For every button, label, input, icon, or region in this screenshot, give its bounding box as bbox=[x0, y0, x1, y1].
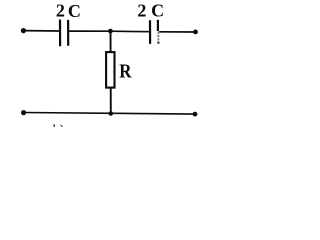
svg-text:R: R bbox=[119, 60, 132, 81]
svg-text:2: 2 bbox=[56, 1, 65, 21]
resistor R body bbox=[106, 52, 114, 88]
wire: node A down to resistor top bbox=[110, 31, 112, 52]
capacitor C1 value label 2C bbox=[56, 1, 81, 21]
svg-text:C: C bbox=[68, 1, 81, 21]
node: top-right terminal bbox=[193, 30, 198, 35]
wire: C2 right plate to top-right terminal bbox=[159, 31, 195, 33]
node A: top junction dot bbox=[108, 29, 113, 34]
node B: bottom junction dot bbox=[109, 111, 114, 116]
wire: resistor bottom down to node B bbox=[110, 88, 112, 114]
node: bottom-left terminal bbox=[21, 110, 26, 115]
wire: top-left terminal to C1 left plate bbox=[23, 30, 59, 32]
capacitor C2 value label 2C bbox=[137, 1, 164, 21]
svg-text:2: 2 bbox=[137, 1, 146, 21]
capacitor C1 (2C) plates bbox=[60, 20, 68, 47]
wire: C1 right plate to node A bbox=[69, 30, 110, 32]
wire: bottom rail bbox=[24, 113, 195, 115]
node: bottom-right terminal bbox=[193, 112, 198, 117]
caption b) (clipped at bottom edge) bbox=[52, 123, 64, 138]
node: top-left terminal bbox=[21, 28, 26, 33]
wire: node A to C2 left plate bbox=[110, 30, 148, 33]
svg-text:C: C bbox=[151, 1, 164, 21]
resistor R value label bbox=[119, 60, 132, 81]
capacitor C2 (2C) plates bbox=[150, 20, 160, 44]
svg-text:b): b) bbox=[52, 123, 64, 127]
